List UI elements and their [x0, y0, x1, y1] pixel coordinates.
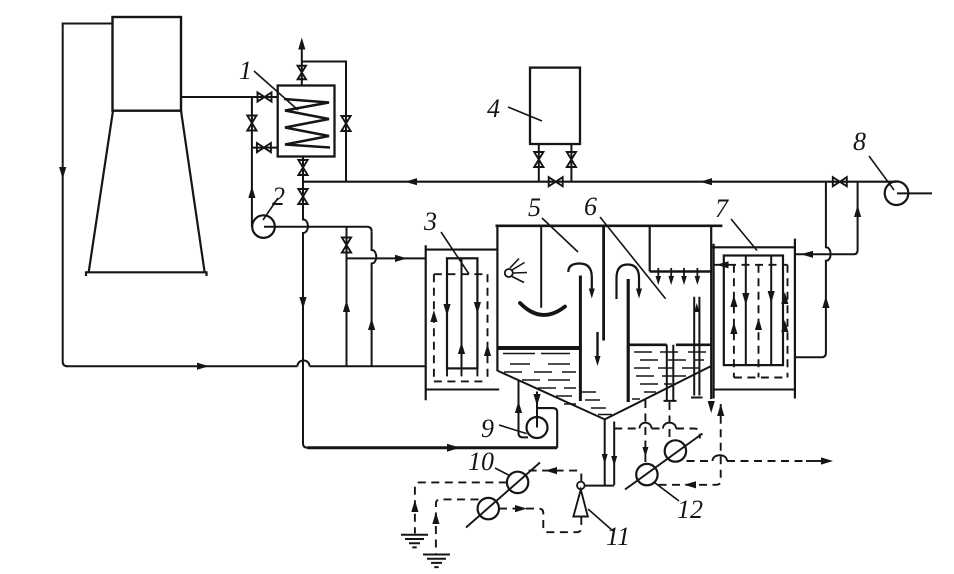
ground symbol 1	[401, 535, 428, 548]
pump 2 circle	[252, 215, 275, 238]
arrow left on header (west)	[405, 178, 417, 185]
leader for label 6	[600, 217, 666, 299]
filter 3 shell	[447, 258, 477, 368]
arrow up in pipe 2	[694, 303, 699, 312]
float trap 11 funnel	[573, 490, 587, 517]
dashed pipe float 11 to pump A	[529, 471, 582, 482]
water hatching left section	[503, 354, 576, 405]
float trap 11 bulb	[577, 482, 585, 490]
vent arrow up	[298, 38, 305, 50]
valve on left outlet	[534, 152, 543, 167]
hop on bottom return pipe	[298, 361, 310, 367]
overflow pipe pair 1	[664, 345, 677, 401]
mid partition wall	[649, 226, 651, 272]
pipe corner from header down to condenser top line	[795, 182, 858, 255]
valve on branch	[247, 116, 256, 131]
funnel right slope	[605, 366, 712, 419]
condenser 7 right header	[794, 239, 796, 399]
steam hood 2 (hook)	[617, 265, 640, 300]
arrow up on valve branch	[343, 300, 350, 312]
blowdown line to pump 9 box	[308, 446, 558, 449]
arrows down in drain pipe	[602, 454, 608, 464]
valve on right branch	[341, 116, 350, 131]
pipe vessel top to left downcomer	[63, 24, 113, 367]
filter 3 mid partition	[461, 258, 463, 368]
hood 2 arrow down	[636, 289, 642, 299]
central shaft pipe	[602, 226, 605, 341]
ejector suction loop dashed	[659, 404, 721, 485]
tank 4 shell	[530, 68, 580, 144]
ejector 12 upper circle	[665, 440, 686, 461]
heater 1 vent pipe up	[301, 49, 303, 86]
vessel skirt right slant	[181, 111, 205, 272]
pipe heater 1 bottom drain with hop over pump line	[303, 157, 308, 448]
arrow down on left downcomer	[59, 167, 66, 179]
arrow left into left header	[717, 261, 729, 268]
pump 9 inlet from funnel	[536, 392, 538, 428]
branch pipe with valve to filter 3	[346, 227, 348, 367]
main condensate header	[303, 181, 897, 183]
svg-text:11: 11	[606, 522, 630, 551]
water level line right	[629, 343, 711, 346]
ejector 12 shaft	[625, 434, 703, 490]
ejector 12 discharge dashed	[687, 460, 807, 462]
svg-text:1: 1	[239, 56, 252, 85]
arrow right on filter inlet	[395, 255, 407, 262]
svg-text:9: 9	[481, 414, 494, 443]
arrow down below right wall	[708, 401, 715, 413]
leader for label 4	[508, 107, 542, 121]
hood 1 arrow down	[589, 289, 595, 299]
condenser 7 shell	[724, 256, 783, 366]
heater 1 shell	[278, 86, 335, 157]
leader for label 11	[588, 509, 613, 531]
svg-text:8: 8	[853, 127, 866, 156]
tank 4 right outlet	[570, 144, 572, 182]
ground symbol 2	[423, 555, 450, 568]
tray water line left	[497, 346, 579, 350]
pipe with valve into heater 1 bottom-left	[252, 147, 278, 149]
leader for label 7	[731, 219, 757, 251]
arrow down on pump 9 inlet	[533, 394, 540, 406]
dashed pipe pump B to ground	[436, 499, 479, 553]
leader for label 8	[869, 156, 894, 190]
deaerator right wall	[710, 226, 712, 399]
arrow up on corner pipe	[854, 205, 861, 217]
dashed pipe pump A to ground	[415, 482, 507, 533]
pipe branch down to pump 2	[251, 97, 253, 227]
pump 8 shaft stub	[897, 192, 932, 194]
pipe float 11 to drain pipe	[585, 485, 615, 487]
dashed pipe pump B to float 11	[499, 509, 581, 533]
arrow left on condenser top line	[801, 251, 813, 258]
arrow up to condenser drain	[717, 404, 724, 416]
condenser 7 left header	[712, 244, 714, 399]
filter 3 bottom connector	[426, 388, 500, 390]
arrow left toward pump A	[545, 467, 557, 474]
filter 3 dashed path right	[487, 274, 489, 381]
valve on branch to filter	[342, 238, 351, 253]
bottom return pipe	[66, 365, 426, 367]
pump 10 shaft	[466, 463, 540, 528]
water hatching right section	[632, 352, 706, 399]
valve on lower branch	[257, 143, 271, 152]
deaerator left wall	[496, 226, 498, 371]
water hatching central shaft	[582, 392, 612, 415]
condenser 7 bottom flange	[714, 388, 795, 390]
arrow left on header (east)	[700, 178, 712, 185]
arrow right at discharge end	[821, 457, 833, 464]
arrow left on suction loop	[684, 481, 696, 488]
pipe down from header with hop, to condenser 7	[795, 182, 831, 358]
vessel body (boiler drum, rectangle)	[113, 17, 182, 111]
tank 4 left outlet	[538, 144, 540, 182]
valve on right outlet	[567, 152, 576, 167]
leader for label 10	[495, 468, 509, 475]
dashed stub funnel to ejector C	[644, 400, 646, 464]
vessel skirt left slant	[89, 111, 113, 272]
arrow down on stub	[642, 447, 648, 457]
pipe from funnel to pump 9 suction	[519, 381, 529, 438]
condenser 7 dashed top	[715, 264, 788, 266]
valve on steam line	[258, 92, 272, 101]
svg-text:7: 7	[715, 194, 729, 223]
leader for label 9	[499, 425, 527, 434]
arrow right on pump B outlet	[515, 505, 527, 512]
pump 10 upper circle	[507, 472, 528, 493]
arrow right on blowdown line	[447, 444, 460, 452]
arrow up toward pump line	[248, 186, 255, 198]
pump 9 circle	[527, 417, 548, 438]
arrow down in central shaft	[595, 356, 601, 366]
distribution header	[650, 270, 712, 272]
filter 3 flow arrows	[430, 310, 437, 322]
condenser 7 dashed verticals	[734, 265, 788, 378]
deaerator top	[496, 225, 723, 228]
valve on header middle	[549, 177, 563, 186]
funnel left slope	[497, 371, 604, 420]
hood 2 riser pipe	[627, 279, 630, 402]
filter 3 dashed bottom	[434, 380, 488, 382]
pump 8 circle	[885, 181, 909, 205]
funnel drain pipe	[605, 419, 615, 485]
arrow right on bottom return	[197, 363, 209, 370]
leader for label 2	[263, 198, 278, 220]
overflow pipe pair 2	[691, 297, 703, 398]
hops on dashed drain	[640, 423, 677, 429]
filter 3 inlet pipe	[347, 257, 426, 259]
heater 1 coil	[284, 99, 330, 148]
condenser 7 partitions	[746, 256, 771, 366]
svg-text:10: 10	[468, 447, 494, 476]
svg-text:3: 3	[423, 207, 437, 236]
water sprayer nozzle	[505, 269, 513, 277]
arrow up on condenser feed	[822, 296, 829, 308]
filter 3 top connector	[426, 249, 498, 251]
svg-text:2: 2	[272, 182, 285, 211]
dashed drain from funnel tip	[614, 429, 700, 439]
ejector 12 lower circle	[636, 464, 657, 485]
arrow up on ground line 2	[432, 512, 439, 524]
svg-text:5: 5	[528, 193, 541, 222]
hop on discharge over suction	[713, 455, 728, 461]
arrow up on downpipe	[368, 318, 375, 330]
pump 10 lower circle	[478, 498, 499, 519]
dashed stub pipe1 to ejector D	[669, 402, 671, 441]
pipe vessel to heater 1	[181, 96, 278, 98]
hood 1 riser pipe	[579, 276, 582, 402]
arrow down on drain pipe	[299, 297, 306, 309]
pipe down with hop over filter inlet	[372, 231, 377, 366]
filter 3 dashed top	[434, 273, 488, 275]
svg-text:6: 6	[584, 192, 597, 221]
svg-text:12: 12	[677, 495, 703, 524]
filter 3 dashed stubs	[447, 368, 477, 381]
spray dish (crescent)	[520, 303, 565, 315]
arrow up on ground line 1	[411, 500, 418, 512]
filter 3 left header	[425, 245, 427, 400]
valve on vent pipe	[298, 66, 306, 80]
steam hood 1 (hook)	[568, 264, 592, 290]
valve on header right	[833, 177, 847, 186]
leader for label 5	[542, 218, 578, 252]
leader for label 1	[254, 71, 298, 110]
spray pipe 5	[540, 226, 542, 308]
condenser 7 top connector from tank	[711, 246, 795, 248]
leader for label 12	[653, 482, 679, 501]
valve heater drain lower	[298, 189, 307, 204]
drip arrows on header	[656, 276, 662, 285]
svg-text:4: 4	[487, 94, 500, 123]
arrow up on suction pipe	[515, 401, 522, 413]
valve heater drain upper	[298, 160, 307, 175]
pipe vent branch right	[302, 62, 346, 182]
vessel base line	[86, 272, 207, 276]
condenser 7 flow arrows	[730, 295, 737, 307]
pump 2 discharge pipe	[264, 227, 372, 231]
leader for label 3	[441, 232, 469, 274]
pump 9 box	[537, 408, 557, 448]
filter 3 dashed path left	[433, 274, 435, 381]
condenser 7 dashed bottom	[734, 377, 788, 379]
